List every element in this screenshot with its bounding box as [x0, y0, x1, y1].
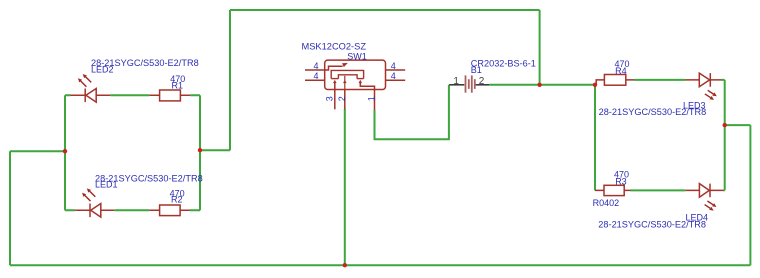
- battery B1 plates: [466, 75, 475, 92]
- LED D3 symbol: [686, 73, 722, 87]
- switch SW1 pin 2 stub: [344, 90, 346, 110]
- svg-text:LED2: LED2: [91, 65, 114, 75]
- wire right edge vertical: [749, 125, 751, 265]
- switch SW1 body: [305, 60, 405, 110]
- wire left vertical of top net: [229, 10, 231, 150]
- svg-text:3: 3: [325, 96, 335, 101]
- LED D2 emission arrows: [78, 74, 91, 87]
- wire switch pin2 down to bottom net: [344, 109, 346, 265]
- switch SW1 contact outer staple: [331, 70, 363, 78]
- wire right LED output column (x=724.7): [724, 80, 726, 190]
- switch SW1 pin 1 stub: [374, 90, 376, 111]
- svg-text:1: 1: [366, 96, 376, 101]
- svg-text:R3: R3: [615, 177, 627, 187]
- wire from right LED column to right edge: [725, 124, 751, 126]
- wire left edge vertical: [9, 151, 11, 265]
- resistor R2: [149, 205, 190, 216]
- wire switch pin1 to battery pin1: [375, 85, 449, 139]
- wire top net: V+ loop top: [230, 9, 540, 11]
- junction dot right pair input: [593, 83, 597, 87]
- battery B1 pin 1 lead: [449, 84, 464, 86]
- svg-text:R4: R4: [615, 66, 627, 76]
- svg-text:2: 2: [337, 96, 347, 101]
- svg-text:MSK12CO2-SZ: MSK12CO2-SZ: [302, 42, 367, 52]
- LED D4 emission arrows: [705, 201, 717, 211]
- LED D4 symbol: [686, 184, 724, 198]
- svg-text:28-21SYGC/S530-E2/TR8: 28-21SYGC/S530-E2/TR8: [598, 219, 706, 229]
- wire right column of left LED pair (x=200): [199, 95, 201, 210]
- svg-text:4: 4: [313, 71, 318, 81]
- switch SW1 pin 3 stub: [334, 90, 336, 110]
- switch SW1 pin 4 left lower: [305, 79, 325, 81]
- resistor R3: [595, 185, 631, 195]
- switch SW1 pin 4 left upper: [305, 69, 325, 71]
- svg-text:LED1: LED1: [95, 180, 118, 190]
- svg-text:R1: R1: [172, 80, 184, 90]
- wire segments LED1 branch y=210.3: [65, 209, 200, 211]
- svg-text:SW1: SW1: [347, 51, 367, 61]
- LED D1 emission arrows: [82, 188, 95, 201]
- switch SW1 left contact foot: [331, 78, 338, 80]
- wire left column of left LED pair (x=65): [64, 95, 66, 210]
- wire bottom return net: [10, 264, 750, 266]
- wire segments LED2 branch y=95.3: [65, 94, 200, 96]
- switch SW1 wiper arrow pin3: [333, 80, 337, 83]
- resistor R4: [596, 75, 634, 86]
- wire segments R3/LED4 branch y=190.4: [631, 189, 725, 191]
- svg-text:28-21SYGC/S530-E2/TR8: 28-21SYGC/S530-E2/TR8: [599, 107, 707, 117]
- resistor R1: [149, 90, 190, 101]
- switch SW1 actuator arrow: [325, 63, 348, 70]
- switch SW1 right contact foot: [357, 78, 364, 80]
- LED D2 symbol: [71, 89, 111, 103]
- switch SW1 wiper arrow pin1: [358, 80, 362, 83]
- wire battery to top net vertical (x=539.6): [539, 10, 541, 85]
- svg-text:B1: B1: [471, 65, 482, 75]
- svg-text:4: 4: [391, 71, 396, 81]
- switch SW1 pin 4 right lower: [386, 79, 406, 81]
- wire left column of right LED pair (x=595): [594, 85, 596, 191]
- LED D1 symbol: [75, 204, 114, 218]
- wire segments R4/LED3 branch y=79.9: [634, 79, 725, 81]
- switch SW1 pin 4 right upper: [386, 69, 406, 71]
- junction dot right pair output: [723, 123, 727, 127]
- LED D3 emission arrows: [705, 90, 717, 100]
- svg-text:4: 4: [391, 61, 396, 71]
- junction dot node left pair right: [198, 148, 202, 152]
- junction dot switch pin2 / bottom net: [343, 263, 347, 267]
- wire horizontal into node at R1/R2 column: [200, 149, 230, 151]
- junction dot node left pair left: [63, 149, 67, 153]
- svg-text:R0402: R0402: [593, 198, 620, 208]
- svg-text:2: 2: [479, 76, 485, 87]
- wire to left edge: [10, 150, 65, 152]
- switch SW1 wiper arrow pin2: [343, 80, 347, 83]
- svg-text:1: 1: [453, 76, 459, 87]
- svg-text:4: 4: [313, 61, 318, 71]
- svg-text:R2: R2: [171, 195, 183, 205]
- battery B1 pin 2 lead: [476, 84, 490, 86]
- junction dot battery/top net: [537, 83, 541, 87]
- switch SW1 contact middle staple: [338, 75, 357, 79]
- wire battery pin2 to right nodes: [489, 84, 595, 86]
